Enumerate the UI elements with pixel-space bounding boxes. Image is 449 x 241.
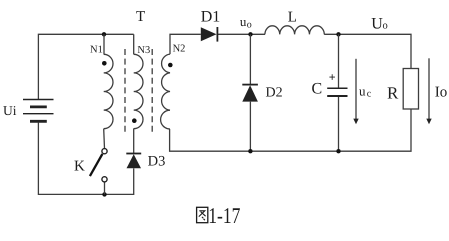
- svg-text:+: +: [329, 70, 336, 84]
- svg-text:o: o: [247, 19, 252, 30]
- node junction dot after L: [336, 32, 340, 36]
- wire N1 bottom to switch: [103, 129, 106, 149]
- node junction dot switch bottom: [102, 192, 106, 196]
- arrow Io: [426, 58, 431, 124]
- wire battery bottom to primary rail: [38, 123, 104, 195]
- wire switch bottom to rail: [104, 182, 106, 195]
- node u_o junction dot: [248, 32, 252, 36]
- wire primary bottom rail to D3: [105, 168, 134, 194]
- polarity dot N3: [132, 118, 137, 123]
- svg-text:D1: D1: [201, 9, 221, 26]
- svg-text:L: L: [288, 9, 297, 25]
- wire top rail left (battery to N3 corner): [38, 34, 133, 99]
- wire L to right corner down to R: [324, 34, 411, 68]
- polarity dot N1: [102, 61, 107, 66]
- winding N2: [161, 54, 170, 129]
- node junction dot D2 bottom: [248, 149, 252, 153]
- svg-text:R: R: [387, 84, 399, 103]
- svg-text:N1: N1: [90, 44, 103, 55]
- wire D2 bottom to rail: [249, 102, 251, 152]
- wire D1 cathode to L: [218, 33, 266, 35]
- svg-text:N2: N2: [173, 44, 186, 55]
- svg-text:T: T: [136, 9, 145, 25]
- svg-text:N3: N3: [137, 45, 150, 56]
- diode D3: [126, 154, 141, 169]
- arrow u_c: [353, 59, 358, 125]
- switch K lever: [90, 154, 103, 176]
- capacitor C plates: [327, 88, 347, 96]
- node junction dot top of N1: [102, 32, 106, 36]
- wire C bottom to rail: [338, 97, 340, 151]
- winding N1: [104, 54, 113, 128]
- wire C branch down from node: [338, 34, 340, 88]
- switch K circles: [102, 149, 107, 182]
- wire secondary bottom rail: [170, 109, 411, 151]
- diode D2: [242, 85, 258, 102]
- polarity dot N2: [168, 63, 173, 68]
- node junction dot C bottom: [336, 149, 340, 153]
- svg-text:C: C: [312, 80, 323, 97]
- winding N3: [134, 54, 143, 128]
- wire N3 top drop: [133, 34, 135, 54]
- wire N3 bottom to D3: [133, 129, 135, 154]
- resistor R box: [403, 69, 418, 110]
- svg-text:u: u: [359, 83, 366, 98]
- wire D2 branch down from u_o: [249, 34, 251, 84]
- diode D1: [201, 27, 218, 42]
- transformer core dashed line right: [151, 49, 153, 132]
- inductor L: [265, 26, 324, 34]
- svg-text:U: U: [371, 15, 383, 32]
- svg-text:1-17: 1-17: [208, 203, 240, 228]
- battery Ui plates: [23, 100, 54, 122]
- transformer core dashed line left: [124, 49, 126, 132]
- svg-text:D2: D2: [266, 86, 283, 101]
- wire N1 top drop: [103, 34, 105, 54]
- svg-text:c: c: [367, 88, 372, 99]
- caption figure glyph 图: [197, 207, 208, 222]
- svg-text:K: K: [74, 159, 85, 175]
- wire N2 top to D1: [170, 34, 201, 54]
- svg-text:o: o: [383, 20, 388, 31]
- svg-text:Io: Io: [435, 85, 448, 101]
- svg-text:Ui: Ui: [3, 103, 17, 118]
- svg-text:D3: D3: [148, 154, 166, 170]
